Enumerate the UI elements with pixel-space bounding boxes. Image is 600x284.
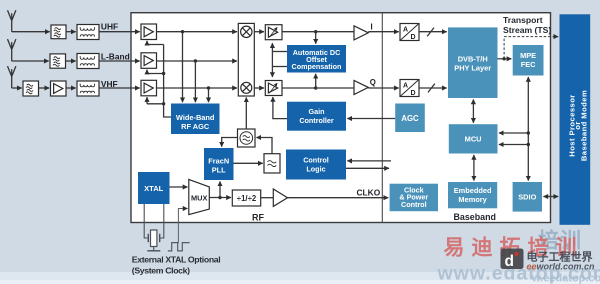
amplifier A-VHF [51, 81, 67, 96]
svg-text:Baseband: Baseband [454, 212, 496, 222]
wire transport stream dashed PHY to MPE FEC [498, 58, 512, 60]
wire net branch into MCU lower [499, 144, 528, 146]
fracN PLL block [204, 148, 234, 180]
wire loop filter up to VCO [256, 138, 272, 154]
antenna ANT3 (VHF) [8, 66, 16, 88]
coil/tracking filter TF2 [77, 54, 99, 69]
MCU block [449, 124, 498, 153]
wire A-Q to ADC2 [368, 87, 398, 89]
external crystal legs [144, 204, 164, 238]
svg-text:Compensation: Compensation [292, 62, 342, 71]
junction dots on AGC feedback bus [162, 72, 165, 106]
svg-text:RF AGC: RF AGC [181, 122, 210, 131]
divider block /1 /2 [232, 190, 260, 206]
wire transport stream dashed to host [504, 36, 558, 38]
filter FL2 (L-Band filter) [50, 54, 66, 68]
wire AGC to gain controller [347, 118, 395, 120]
wire mixer block to VGA2 [254, 87, 264, 89]
wire LNA3 to mixer block [157, 87, 238, 89]
svg-text:AGC: AGC [401, 114, 419, 123]
mixer M1 [241, 26, 252, 37]
wire gain controller to VGA2 [273, 97, 287, 119]
amplifier A-I (I output buffer) [354, 26, 368, 40]
wire PHY to MCU bidirectional [472, 99, 474, 122]
watermark logo square [501, 249, 524, 271]
svg-text:Control: Control [303, 155, 329, 164]
LNA U1 [141, 24, 157, 40]
wire A-I to ADC1 [368, 31, 398, 33]
DVB-T/H PHY layer block [448, 27, 498, 98]
wire DC offset injection bus between VGAs [272, 43, 287, 77]
svg-text:RF: RF [252, 213, 264, 223]
svg-text:SDIO: SDIO [518, 193, 536, 202]
svg-text:D: D [411, 34, 416, 41]
amplifier clock buffer [273, 189, 287, 206]
wire Q-line sense tap into ADOC [314, 74, 317, 90]
external clock square wave symbol [168, 243, 190, 251]
svg-text:eeworld.com.cn: eeworld.com.cn [527, 262, 596, 272]
ADC2 (A/D converter Q) [400, 80, 419, 98]
wire MUX output up to fracN PLL [218, 181, 221, 199]
svg-text:Memory: Memory [458, 195, 487, 204]
wire ANT1 to filter [12, 31, 50, 33]
svg-text:Wide-Band: Wide-Band [176, 113, 215, 122]
svg-text:Transport: Transport [503, 15, 543, 25]
wire mixer block to VGA1 [254, 31, 264, 33]
wire VGA1 to A-I [282, 31, 354, 33]
LNA U3 [141, 80, 157, 96]
wire LNA2 to mixer block [157, 60, 238, 62]
svg-text:L-Band: L-Band [101, 51, 130, 61]
LNA U2 [141, 53, 157, 69]
wire A-VHF to coil [66, 87, 76, 89]
wire ANT3 to filter [12, 87, 22, 89]
wire LNA1 to mixer block [157, 31, 238, 33]
svg-text:MPE: MPE [520, 51, 536, 60]
wire tap row1 down to Wide-Band RF AGC [181, 30, 184, 102]
wire ADC1 to PHY with bus slash [419, 28, 447, 37]
svg-text:d: d [505, 253, 514, 270]
svg-text:CLKO: CLKO [357, 187, 381, 197]
svg-text:DVB-T/H: DVB-T/H [458, 55, 488, 64]
wire into control logic from baseband [347, 160, 391, 162]
svg-text:A: A [403, 27, 408, 34]
ADC1 (A/D converter I) [400, 24, 419, 42]
wire FL1 to coil [66, 31, 76, 33]
wire FL3 to amp [39, 87, 50, 89]
wire AGC feedback bus to LNAs [147, 41, 171, 117]
svg-text:XTAL: XTAL [144, 184, 164, 193]
wire TF2 to LNA2 [99, 60, 140, 62]
junction dots on MPE FEC net [527, 131, 530, 146]
XTAL block [138, 172, 170, 204]
wire VCO feedback down to fracN PLL [222, 138, 238, 147]
RF/Baseband divider line [381, 13, 383, 223]
wire CLKO to clock and power control [288, 197, 389, 199]
svg-text:D: D [411, 90, 416, 97]
host processor block [560, 14, 591, 225]
svg-text:I: I [371, 22, 373, 31]
svg-text:÷1/÷2: ÷1/÷2 [237, 194, 257, 203]
svg-text:Embedded: Embedded [454, 186, 492, 195]
wire divider to clock buffer [261, 197, 274, 199]
svg-text:VHF: VHF [101, 79, 118, 89]
filter FL1 (UHF band filter) [51, 25, 66, 39]
svg-text:Gain: Gain [309, 107, 325, 116]
mixer block (quadrature downconverter) [238, 23, 254, 96]
wire VCO LO up to mixer block [245, 97, 247, 129]
svg-text:Baseband Modem: Baseband Modem [580, 90, 589, 161]
loop filter [264, 154, 280, 173]
control logic block [286, 150, 346, 180]
svg-text:Q: Q [370, 78, 376, 87]
wire MCU to embedded memory bidirectional [473, 155, 475, 181]
svg-text:PLL: PLL [212, 166, 226, 175]
wire transport stream dashed up [503, 37, 505, 59]
wire TF3 to LNA3 [99, 87, 140, 89]
wire I-line sense tap into ADOC [314, 30, 317, 44]
MUX [189, 179, 210, 214]
mixer M2 [241, 82, 252, 93]
wire SDIO to host bidirectional [543, 196, 558, 198]
svg-text:MUX: MUX [191, 194, 207, 203]
svg-text:(System Clock): (System Clock) [132, 265, 190, 275]
wire TF1 to LNA1 [99, 31, 140, 33]
wire ANT2 to filter [12, 60, 49, 62]
wire XTAL to MUX [170, 186, 188, 188]
wire control logic out to baseband [346, 167, 389, 169]
VGA G1 (I path, variable gain amp) [265, 25, 282, 40]
wire fracN PLL to loop filter [234, 162, 263, 164]
filter FL3 (VHF filter) [23, 81, 39, 96]
wire VGA2 to A-Q [282, 87, 354, 89]
background lighter bottom band [0, 272, 600, 284]
coil/tracking filter TF3 [77, 81, 99, 96]
embedded memory block [448, 182, 497, 208]
chip outline box [131, 13, 551, 223]
svg-text:Logic: Logic [306, 164, 325, 173]
antenna ANT1 (UHF) [8, 10, 16, 32]
svg-text:FEC: FEC [521, 60, 536, 69]
external crystal symbol [147, 230, 160, 251]
AGC block [395, 104, 425, 133]
clock and power control block [390, 184, 438, 212]
SDIO block [513, 182, 542, 212]
VGA G2 (Q path, variable gain amp) [265, 81, 282, 96]
svg-text:Stream (TS): Stream (TS) [503, 25, 551, 35]
svg-text:External XTAL Optional: External XTAL Optional [132, 255, 221, 265]
svg-text:Controller: Controller [299, 116, 334, 125]
amplifier A-Q (Q output buffer) [354, 80, 368, 94]
svg-text:PHY Layer: PHY Layer [454, 64, 491, 73]
wire MPE FEC vertical net to SDIO [527, 77, 529, 181]
wire external clock to MUX [178, 209, 187, 244]
svg-text:Control: Control [401, 200, 427, 209]
wire tap row3 down to Wide-Band RF AGC [207, 86, 210, 102]
junction dot on TS line [502, 57, 505, 60]
svg-text:w.eedatop.com: w.eedatop.com [531, 273, 600, 284]
wire FL2 to coil [66, 60, 76, 62]
automatic DC offset compensation block [287, 45, 346, 73]
antenna ANT2 (L-Band) [8, 39, 16, 61]
gain controller block [287, 102, 346, 131]
wire tap row2 down to Wide-Band RF AGC [194, 59, 197, 102]
local oscillator VCO [238, 129, 256, 147]
svg-text:A: A [403, 83, 408, 90]
svg-text:UHF: UHF [101, 22, 118, 32]
coil/tracking filter TF1 [77, 25, 99, 40]
svg-text:FracN: FracN [208, 157, 229, 166]
wire net branch into MCU upper [499, 132, 528, 134]
wide-band RF AGC block [171, 104, 220, 135]
wire ADC2 to PHY with bus slash [419, 84, 447, 93]
MPE FEC block [513, 45, 544, 76]
wire MUX output to divider [209, 197, 231, 199]
svg-text:MCU: MCU [465, 135, 482, 144]
